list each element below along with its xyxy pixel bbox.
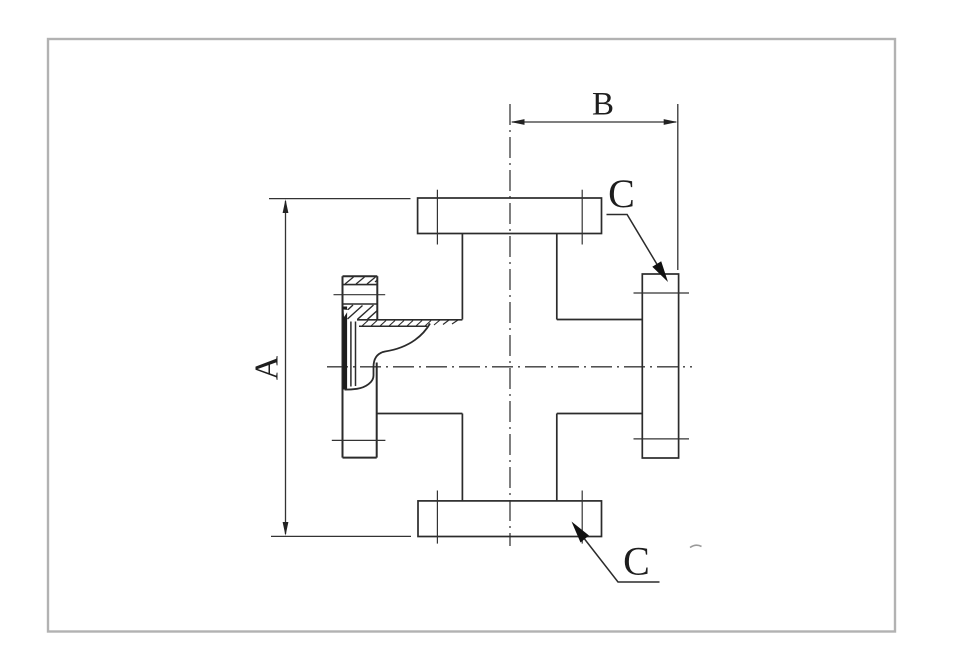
top flange F1 (418, 198, 602, 234)
left flange internal line 1 (343, 284, 378, 286)
left flange bolt line top (334, 294, 386, 296)
horizontal centerline (327, 366, 692, 368)
tube bore line outer (350, 322, 352, 387)
svg-text:C: C (623, 539, 650, 584)
vertical centerline (509, 104, 511, 546)
vertical tube lower neck walls (462, 414, 556, 501)
svg-text:C: C (608, 171, 635, 216)
dimension B extension line right (677, 104, 679, 270)
top flange bolt line right (581, 190, 583, 245)
leader C top line (607, 215, 663, 274)
dimension A bottom extension line (271, 535, 411, 537)
dimension A line (285, 201, 287, 534)
left flange internal line 2 (343, 303, 378, 305)
right flange bolt line bottom (634, 438, 690, 440)
left flange lower hatch band (346, 305, 377, 319)
left arm top wall (357, 319, 462, 321)
bottom flange bolt line left (436, 491, 438, 544)
leader C bottom arrowhead (572, 522, 590, 543)
left flange bore face thick bar (343, 307, 348, 390)
scan artifact arc (690, 545, 702, 547)
left flange bolt line bottom (332, 439, 386, 441)
tube bore line inner (355, 322, 357, 387)
svg-text:B: B (592, 87, 614, 123)
left flange top hatch band (345, 277, 377, 284)
leader C bottom line (576, 528, 660, 582)
left arm bottom wall (377, 413, 463, 415)
dimension B line (512, 121, 676, 123)
dimension B arrow right (664, 119, 678, 125)
dimension A arrow up (283, 199, 289, 213)
flare S-curve (345, 324, 431, 390)
left flange bore face notch (344, 310, 349, 318)
left arm tube wall hatching (362, 320, 458, 326)
dimension A arrow down (283, 522, 289, 536)
vertical tube upper neck walls (462, 234, 556, 320)
drawing border frame (48, 39, 895, 632)
bottom flange F2 (418, 501, 602, 537)
leader C top arrowhead (652, 261, 668, 282)
bottom flange bolt line right (581, 491, 583, 544)
right flange bolt line top (634, 292, 690, 294)
left flange F4 outline (section view) (343, 276, 378, 457)
dimension A top extension line (269, 198, 411, 200)
right flange F3 (642, 274, 678, 458)
svg-text:A: A (249, 355, 286, 380)
dimension B arrow left (511, 119, 525, 125)
right arm walls (557, 320, 643, 414)
left arm tube wall section lower line (359, 325, 427, 327)
top flange bolt line left (436, 190, 438, 245)
